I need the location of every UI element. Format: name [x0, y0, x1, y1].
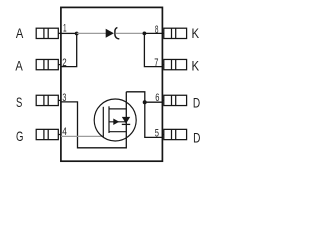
svg-text:A: A — [15, 58, 23, 74]
svg-text:2: 2 — [62, 57, 66, 69]
svg-text:K: K — [192, 58, 200, 74]
wire pin4 gate (gray) — [61, 135, 103, 137]
node cathode junction dot — [143, 32, 147, 36]
body diode cathode bar — [122, 123, 130, 125]
body diode triangle — [122, 117, 130, 124]
svg-text:A: A — [16, 25, 24, 41]
svg-text:3: 3 — [62, 92, 66, 104]
pin 2 pad box — [36, 59, 61, 69]
svg-text:D: D — [193, 94, 200, 110]
wire node to pin6 — [145, 101, 162, 103]
MOSFET Q1 source stub — [109, 131, 126, 133]
MOSFET Q1 body arrow — [113, 119, 119, 126]
pin 3 pad box — [36, 95, 61, 105]
MOSFET Q1 gate bar — [102, 107, 104, 137]
svg-text:G: G — [16, 128, 23, 144]
svg-text:6: 6 — [155, 92, 159, 104]
wire pin3 source path — [61, 92, 126, 148]
MOSFET Q1 body stub — [109, 121, 126, 123]
node anode junction dot — [75, 32, 79, 36]
svg-text:7: 7 — [154, 57, 158, 69]
pin 1 pad box — [36, 28, 61, 38]
pin 4 pad box — [36, 129, 61, 139]
svg-text:1: 1 — [63, 23, 67, 35]
LED D1 triangle — [106, 29, 114, 38]
package outline U1 — [61, 7, 162, 161]
MOSFET Q1 drain stub — [109, 108, 126, 110]
wire node to pin8 — [144, 32, 162, 34]
MOSFET Q1 channel bar — [108, 106, 110, 133]
svg-text:8: 8 — [155, 24, 159, 36]
pin 7 pad box — [162, 59, 186, 69]
node drain junction dot — [143, 100, 147, 104]
MOSFET Q1 circle — [94, 99, 136, 141]
wire pin1 to node — [61, 32, 77, 34]
svg-text:5: 5 — [155, 127, 159, 139]
wire LED cathode (gray) — [116, 32, 144, 34]
LED D1 cathode curve — [115, 28, 119, 39]
svg-text:K: K — [192, 25, 200, 41]
pin 5 pad box — [162, 129, 186, 139]
wire anode bus to pin2 — [61, 33, 77, 66]
wire drain top link — [126, 92, 162, 138]
svg-text:4: 4 — [62, 126, 67, 138]
wire LED anode (gray) — [77, 32, 107, 34]
pin 6 pad box — [162, 95, 186, 105]
svg-text:S: S — [16, 94, 22, 110]
svg-text:D: D — [193, 129, 200, 145]
wire cathode bus to pin7 — [144, 33, 162, 66]
pin 8 pad box — [162, 28, 186, 38]
